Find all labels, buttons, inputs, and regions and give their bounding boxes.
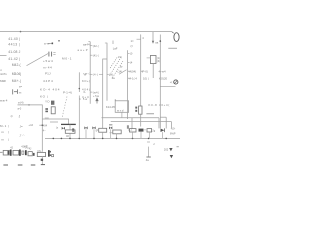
svg-text:K0-8 30+4(: K0-8 30+4( [149, 103, 170, 107]
node right-of-column labels [82, 42, 90, 99]
wire bottom ground bus [45, 137, 180, 139]
winding W3 stacked plates [127, 126, 129, 129]
svg-text:+5w: +5w [93, 94, 99, 98]
svg-text:-"-: -"- [22, 135, 25, 137]
diode D1 right-pointing [161, 129, 165, 133]
resistor R5 hatched diagonal pair [110, 57, 124, 78]
svg-text:P-1-4|: P-1-4| [63, 90, 72, 94]
svg-text:M-1 |: M-1 | [0, 124, 9, 128]
svg-text:KO(20: KO(20 [159, 76, 168, 80]
wire dashed mechanical link [62, 97, 67, 119]
contact S3 bowtie [92, 126, 95, 129]
wire below K3 [152, 64, 154, 79]
node center-left label column [40, 42, 72, 104]
wire arrow feeder x153 [152, 32, 154, 42]
node arrowhead down [152, 41, 154, 44]
wire P feeder lower [78, 96, 80, 139]
relay coil K2 box on bus E [139, 106, 142, 114]
svg-text:8%P: 8%P [170, 132, 176, 136]
resistor R21 box [147, 129, 152, 132]
node nub bottom [50, 154, 51, 156]
wire K10 down [41, 157, 43, 165]
svg-text:+4J: +4J [28, 123, 33, 127]
node nub top [50, 151, 51, 153]
svg-text:4P-0(: 4P-0( [141, 70, 148, 74]
svg-text:M4+-(: M4+-( [12, 79, 22, 83]
svg-text:44(04(: 44(04( [128, 70, 136, 74]
node dot under bus [58, 40, 60, 42]
svg-text:(w4(: (w4( [93, 90, 99, 94]
svg-text:(4(: (4( [157, 59, 160, 63]
svg-text:a=: a= [19, 85, 22, 88]
svg-text:M0-1: M0-1 [62, 57, 72, 61]
svg-text:m-44: m-44 [43, 66, 52, 70]
node dark blob under K10 [41, 159, 43, 161]
wire vertical bus A x90 [89, 42, 91, 104]
ground stub below bus [148, 147, 150, 157]
winding W4 plates left of S2 [72, 128, 74, 129]
relay coil K9 box [28, 152, 32, 156]
wire underline below lamp [160, 85, 176, 87]
wire dash near feeder top [45, 117, 49, 119]
wire stub K5 to bus [102, 132, 104, 138]
svg-text:(4-(: (4-( [93, 73, 98, 77]
node tail mark K9 [33, 153, 35, 156]
wire tick left edge [0, 151, 3, 153]
relay coil K10 box on feeder [37, 152, 45, 156]
wire feeder branch y119 [42, 119, 68, 124]
wire branch into feeder at y129 [39, 124, 42, 126]
wire stub with terminal blob [48, 42, 53, 44]
lamp HL1 [174, 80, 178, 84]
svg-text:(P: (P [96, 129, 99, 133]
component dark block [139, 129, 144, 132]
svg-text:J=: J= [20, 124, 23, 128]
contact S4 bowtie with overbar [109, 124, 112, 126]
diode D2 down arrow [169, 148, 172, 151]
node dark insert K7 [8, 151, 10, 155]
node thick bar contact bridge [61, 123, 76, 125]
relay coil K6 box [113, 130, 121, 134]
svg-text:1'0|: 1'0| [118, 56, 122, 59]
wire bus E continues [140, 114, 142, 126]
svg-text:LaF: LaF [113, 47, 118, 51]
contact bar B4 [48, 150, 50, 157]
wire vertical bus B x102.7 [103, 59, 107, 128]
ground symbol g4 [41, 164, 45, 166]
op-amp U1 module box K14-05 [115, 101, 128, 113]
wire stub S3 [93, 129, 95, 138]
wire stub K6 to bus [116, 134, 118, 139]
node tick below bus [147, 141, 150, 143]
svg-text:a-w: a-w [44, 42, 50, 46]
svg-text:M3-04(: M3-04( [12, 72, 22, 76]
relay coil K7 box [3, 150, 9, 155]
ground bar [146, 156, 150, 158]
node hook top of bus C [105, 42, 107, 44]
node selector arrow up [96, 98, 98, 103]
wire stub S2 [85, 129, 87, 138]
svg-text:+5w4: +5w4 [43, 59, 53, 63]
svg-text:P1J: P1J [45, 72, 51, 76]
wire L-shaped feeder from left labels to bottom row [18, 105, 43, 152]
diode D3 down arrow [170, 155, 173, 158]
wire horizontal link lower [111, 121, 172, 123]
svg-text:4r-w4: 4r-w4 [159, 69, 166, 73]
wire horizontal link under box [102, 117, 160, 119]
wire drop left x132 [131, 118, 133, 129]
svg-text:KO-4 404: KO-4 404 [40, 88, 60, 92]
svg-text:w: w [84, 74, 86, 77]
svg-text:202: 202 [164, 148, 169, 152]
resistor R10 outline box [51, 107, 55, 114]
svg-text:(42-(: (42-( [93, 44, 99, 48]
relay coil K3 box [150, 56, 156, 64]
wire lead into K3 [147, 57, 151, 59]
wire vertical bus F x156 [159, 35, 161, 129]
wire isolated dash [146, 113, 154, 115]
svg-text:m |: m | [1, 138, 9, 142]
svg-text:(w: (w [120, 65, 123, 68]
wire stub box bottom [121, 112, 123, 117]
node tick left of bus E top [137, 38, 141, 40]
svg-text:(=: (= [131, 44, 134, 48]
motor M1 small hatched component [51, 101, 54, 105]
node ticks on bus D [128, 54, 130, 63]
svg-text:m |: m | [1, 130, 9, 134]
node junction on feeder [28, 104, 29, 105]
svg-text:4413 |: 4413 | [8, 43, 20, 47]
node junction dot feeder y129 [42, 124, 44, 126]
svg-text:10( |: 10( | [143, 76, 149, 80]
node bottom-left labels row [10, 145, 32, 151]
node sheet number logo top-right [168, 32, 179, 48]
svg-text:+(0-: +(0- [171, 126, 176, 130]
svg-text:2a: 2a [112, 76, 116, 80]
winding W1 stacked plates [45, 108, 48, 112]
node right text block row2 [128, 76, 168, 80]
node pin tick on box [114, 99, 116, 101]
wire vertical P-1-4 feeder [78, 72, 80, 92]
wire top supply bus [0, 31, 172, 33]
svg-text:w n d: w n d [117, 108, 124, 112]
contact S2 bowtie [84, 126, 87, 129]
svg-text:41-08 J: 41-08 J [8, 50, 20, 54]
svg-text:KN-: KN- [37, 150, 41, 153]
ground symbol g3 [31, 164, 36, 166]
wire stub coil to bus [69, 133, 71, 138]
contact K1 left normally-open symbol [13, 89, 18, 94]
svg-text:44P4: 44P4 [43, 79, 53, 83]
node tick+label on bus C [107, 73, 109, 75]
svg-text:4 5w: 4 5w [79, 97, 87, 101]
wire stub bar to coil [69, 124, 71, 129]
contact bar B1 [10, 150, 12, 156]
node junction dots on bottom bus [53, 138, 168, 140]
svg-text:+(: +( [170, 80, 173, 84]
wire diagonal jumper [27, 54, 49, 66]
wire vertical x166.2 [165, 117, 167, 128]
node junction dot on top bus [20, 31, 22, 33]
capacitor C1 [49, 52, 52, 57]
svg-text:(41-(: (41-( [93, 53, 99, 57]
node left margin labels [0, 68, 9, 142]
svg-text:KO |: KO | [40, 94, 48, 98]
wire vertical bus E x140.7 [140, 34, 142, 106]
wire vertical bus C x107 [106, 43, 108, 101]
relay coil K4 box [65, 130, 75, 133]
node open square terminal [52, 155, 54, 157]
wire stub across [160, 116, 166, 118]
svg-text:aa: aa [155, 41, 158, 44]
winding W2 plates [135, 107, 137, 112]
svg-text:404: 404 [43, 124, 48, 128]
wire drop from right components to bus [133, 132, 163, 139]
ground symbol g2 [18, 164, 23, 166]
svg-text:1=: 1= [131, 39, 135, 43]
svg-text:KO+|: KO+| [82, 79, 90, 83]
svg-text:M34!: M34! [0, 79, 6, 83]
wire left stub [0, 54, 7, 56]
svg-text:a-0: a-0 [18, 107, 22, 111]
node cap side ticks [53, 53, 55, 55]
node tick below bus at x113 [112, 41, 114, 45]
contact S1 bowtie [62, 127, 65, 130]
svg-text:0-: 0- [84, 90, 86, 94]
wire jog tick at y74 [99, 73, 103, 75]
svg-text:m: m [19, 90, 22, 94]
wire drop right x159 [158, 118, 160, 129]
wire leader diagonal [119, 70, 127, 75]
svg-text:YO: YO [45, 100, 50, 104]
svg-text:4-17n: 4-17n [0, 72, 7, 76]
wire stub S4 [110, 129, 112, 138]
contact bar B2 [19, 150, 21, 156]
ground symbol g1 [3, 164, 8, 166]
svg-text:41-40 |: 41-40 | [8, 37, 20, 41]
wire vertical bus D x127.6 [127, 50, 129, 119]
svg-text:a-(4): a-(4) [18, 101, 24, 105]
node ticks and pin labels on bus A [88, 42, 92, 93]
contact bar B3 [25, 150, 27, 155]
node small o component [22, 151, 24, 154]
wire vertical x171.5 [171, 122, 173, 129]
relay coil K8 box [13, 150, 19, 155]
resistor R20 box [130, 129, 137, 132]
svg-text:K14-05: K14-05 [106, 105, 115, 109]
wire small segment y122 [50, 121, 58, 123]
svg-text:war4: war4 [0, 98, 8, 102]
svg-text:M42-(: M42-( [12, 63, 22, 67]
node left terminal labels column [8, 37, 22, 83]
node junction on P feeder [79, 88, 81, 90]
relay coil K5 box [99, 128, 107, 132]
svg-text:4--: 4-- [43, 129, 46, 132]
svg-text:44-1( 4: 44-1( 4 [128, 76, 137, 80]
svg-text:41-42 |: 41-42 | [8, 57, 20, 61]
wire small dash right [177, 146, 179, 148]
node right text block row1 [128, 69, 166, 73]
svg-text:aa44: aa44 [83, 42, 90, 46]
